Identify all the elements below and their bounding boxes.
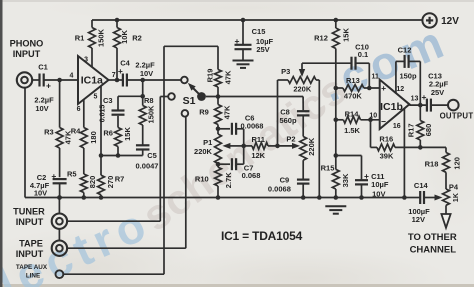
svg-text:10K: 10K: [120, 30, 129, 44]
svg-text:4: 4: [70, 73, 74, 80]
svg-text:C5: C5: [147, 151, 157, 160]
svg-text:+: +: [118, 66, 123, 76]
svg-text:+: +: [422, 92, 427, 102]
svg-text:220K: 220K: [194, 147, 213, 156]
svg-text:39K: 39K: [380, 152, 394, 161]
svg-text:12: 12: [396, 86, 404, 93]
svg-text:−: −: [381, 117, 386, 127]
svg-text:0.0068: 0.0068: [241, 122, 264, 131]
svg-text:25V: 25V: [256, 45, 269, 54]
svg-text:TO OTHER: TO OTHER: [408, 232, 457, 243]
svg-text:C14: C14: [414, 181, 429, 190]
svg-text:C9: C9: [280, 176, 290, 185]
svg-text:R14: R14: [345, 109, 360, 118]
svg-text:47K: 47K: [223, 105, 232, 119]
svg-text:12K: 12K: [251, 151, 265, 160]
svg-text:IC1 = TDA1054: IC1 = TDA1054: [221, 229, 303, 243]
svg-text:220K: 220K: [293, 85, 312, 94]
svg-text:PHONO: PHONO: [10, 39, 44, 49]
svg-text:120: 120: [452, 157, 461, 170]
svg-text:+: +: [381, 83, 386, 93]
svg-text:6: 6: [77, 106, 81, 113]
svg-text:470K: 470K: [344, 92, 363, 101]
svg-text:INPUT: INPUT: [16, 249, 44, 259]
svg-text:+: +: [364, 171, 369, 181]
svg-text:13: 13: [411, 96, 419, 103]
svg-text:TAPE: TAPE: [19, 239, 43, 249]
svg-text:R5: R5: [67, 170, 77, 179]
svg-text:820: 820: [88, 176, 97, 189]
svg-text:R9: R9: [199, 108, 209, 117]
svg-text:+: +: [235, 36, 240, 46]
svg-text:C4: C4: [120, 59, 130, 68]
svg-text:R19: R19: [206, 69, 215, 83]
svg-text:12V: 12V: [412, 215, 425, 224]
svg-text:1K: 1K: [453, 193, 460, 202]
svg-text:R18: R18: [425, 160, 439, 169]
svg-text:1.5K: 1.5K: [344, 126, 360, 135]
svg-text:0.0068: 0.0068: [268, 184, 291, 193]
svg-text:150p: 150p: [399, 71, 417, 80]
svg-text:0.015: 0.015: [100, 105, 107, 123]
svg-text:IC1b: IC1b: [380, 101, 403, 113]
svg-text:560p: 560p: [279, 116, 297, 125]
svg-text:R11: R11: [252, 135, 265, 144]
svg-text:TUNER: TUNER: [13, 207, 45, 217]
svg-text:R7: R7: [115, 175, 125, 184]
svg-text:680: 680: [424, 124, 433, 137]
svg-text:10V: 10V: [140, 69, 153, 78]
svg-text:R16: R16: [379, 134, 393, 143]
svg-text:CHANNEL: CHANNEL: [410, 244, 457, 255]
svg-text:15K: 15K: [342, 28, 351, 42]
svg-text:P2: P2: [286, 135, 295, 144]
svg-text:10V: 10V: [372, 190, 385, 199]
svg-text:150K: 150K: [96, 28, 105, 47]
svg-text:P3: P3: [281, 67, 290, 76]
svg-text:R1: R1: [75, 34, 85, 43]
svg-text:+: +: [46, 81, 51, 91]
svg-text:INPUT: INPUT: [13, 49, 41, 59]
svg-text:25V: 25V: [431, 88, 444, 97]
svg-text:R12: R12: [314, 34, 328, 43]
svg-text:150K: 150K: [147, 105, 156, 124]
svg-text:C1: C1: [38, 63, 48, 72]
svg-text:16: 16: [393, 123, 401, 130]
svg-text:R4: R4: [71, 127, 81, 136]
svg-text:11: 11: [371, 74, 379, 81]
svg-text:INPUT: INPUT: [16, 217, 44, 227]
svg-text:7: 7: [112, 72, 116, 79]
svg-text:270: 270: [106, 176, 115, 189]
svg-text:TAPE AUX: TAPE AUX: [16, 264, 48, 271]
svg-text:220K: 220K: [307, 137, 316, 156]
svg-text:OUTPUT: OUTPUT: [440, 111, 474, 120]
svg-text:R10: R10: [195, 174, 209, 183]
svg-text:47K: 47K: [224, 70, 233, 84]
svg-text:0.0047: 0.0047: [136, 162, 159, 171]
svg-text:5: 5: [93, 94, 97, 101]
svg-text:15K: 15K: [123, 127, 132, 141]
svg-text:12V: 12V: [441, 16, 459, 27]
svg-text:R8: R8: [144, 96, 154, 105]
svg-text:10V: 10V: [35, 104, 48, 113]
svg-text:R3: R3: [44, 128, 54, 137]
svg-text:10V: 10V: [34, 189, 47, 198]
svg-text:0.1: 0.1: [358, 50, 368, 59]
svg-text:C15: C15: [252, 27, 266, 36]
svg-text:IC1a: IC1a: [81, 75, 103, 87]
svg-text:10: 10: [369, 113, 377, 120]
svg-text:10µF: 10µF: [371, 180, 389, 189]
svg-text:+: +: [51, 171, 56, 181]
svg-text:C8: C8: [280, 107, 290, 116]
svg-text:33K: 33K: [341, 173, 350, 187]
svg-text:3: 3: [84, 57, 88, 64]
svg-text:R13: R13: [346, 76, 360, 85]
svg-text:S1: S1: [183, 95, 196, 107]
svg-text:180: 180: [89, 131, 98, 144]
svg-text:LINE: LINE: [26, 273, 40, 280]
svg-text:2.7K: 2.7K: [224, 172, 233, 188]
svg-text:R17: R17: [406, 123, 415, 137]
svg-text:C3: C3: [103, 96, 113, 105]
svg-text:R6: R6: [103, 129, 113, 138]
svg-text:R15: R15: [321, 163, 335, 172]
svg-text:0.068: 0.068: [242, 171, 261, 180]
svg-text:P4: P4: [449, 182, 459, 191]
svg-text:R2: R2: [132, 34, 142, 43]
svg-text:C12: C12: [398, 46, 412, 55]
svg-text:P1: P1: [203, 138, 212, 147]
